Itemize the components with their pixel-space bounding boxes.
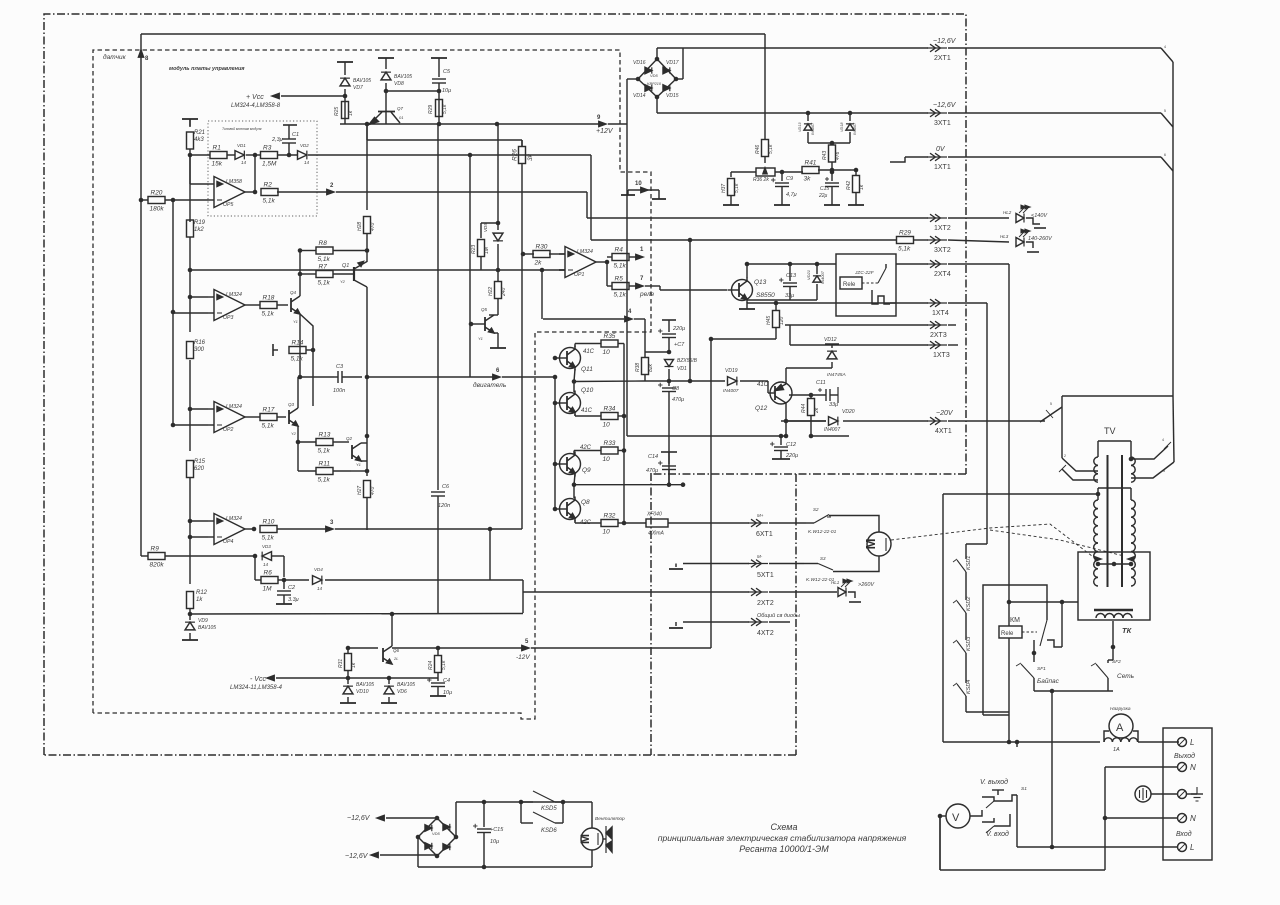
svg-text:IN4007: IN4007: [811, 122, 815, 135]
svg-text:820k: 820k: [150, 562, 165, 569]
svg-text:Y1: Y1: [356, 462, 361, 467]
svg-text:+C15: +C15: [490, 827, 504, 833]
svg-text:5,1k: 5,1k: [734, 183, 740, 193]
svg-text:LM324-11,LM358-4: LM324-11,LM358-4: [230, 685, 283, 691]
svg-text:TV: TV: [1104, 426, 1116, 436]
svg-text:10μ: 10μ: [443, 690, 452, 696]
svg-text:R46: R46: [755, 145, 761, 154]
svg-text:Q9: Q9: [582, 467, 591, 474]
svg-text:C8: C8: [672, 386, 680, 392]
svg-text:Нагрузка: Нагрузка: [1110, 706, 1131, 712]
svg-text:S1: S1: [1021, 786, 1027, 792]
svg-text:S2: S2: [813, 507, 819, 512]
svg-text:~12,6V: ~12,6V: [933, 102, 957, 109]
svg-text:VD21: VD21: [806, 270, 811, 280]
svg-text:R29: R29: [899, 230, 911, 237]
svg-text:5,1k: 5,1k: [318, 448, 331, 455]
svg-text:220μ: 220μ: [785, 453, 798, 459]
svg-text:BAV105: BAV105: [356, 682, 374, 688]
svg-text:1k: 1k: [859, 184, 865, 190]
svg-text:5,1k: 5,1k: [614, 292, 627, 299]
svg-text:C11: C11: [816, 380, 826, 386]
svg-text:01: 01: [399, 115, 403, 120]
svg-text:BAV105: BAV105: [394, 74, 412, 80]
svg-text:R8: R8: [319, 240, 328, 247]
svg-text:V. вход: V. вход: [986, 830, 1009, 838]
svg-text:VD9: VD9: [198, 618, 208, 624]
svg-text:~12,6V: ~12,6V: [347, 815, 371, 822]
svg-text:M: M: [578, 834, 592, 844]
svg-text:LM324-4,LM358-8: LM324-4,LM358-8: [231, 103, 281, 109]
svg-text:1M: 1M: [484, 246, 490, 254]
svg-text:LM324: LM324: [577, 249, 593, 255]
svg-text:L: L: [1190, 843, 1194, 852]
svg-text:6XT1: 6XT1: [756, 531, 773, 538]
svg-text:Q7: Q7: [397, 106, 404, 111]
svg-text:5,1k: 5,1k: [442, 104, 448, 114]
svg-text:VD12: VD12: [824, 337, 837, 343]
svg-text:1XT3: 1XT3: [933, 352, 950, 359]
svg-text:3.3μ: 3.3μ: [288, 597, 299, 603]
svg-text:R2: R2: [264, 182, 273, 189]
svg-text:H37: H37: [721, 184, 727, 193]
svg-text:N: N: [1190, 814, 1196, 823]
svg-text:470: 470: [370, 486, 376, 495]
svg-text:2XT2: 2XT2: [757, 600, 774, 607]
svg-text:1XT4: 1XT4: [932, 310, 949, 317]
svg-text:2k: 2k: [534, 260, 543, 267]
svg-text:5,1k: 5,1k: [263, 198, 276, 205]
svg-text:120n: 120n: [438, 503, 450, 509]
svg-text:VD13: VD13: [798, 122, 802, 132]
svg-text:5: 5: [1164, 109, 1166, 113]
svg-text:R12: R12: [196, 590, 208, 596]
svg-text:R42: R42: [846, 181, 852, 190]
svg-text:LM324: LM324: [226, 404, 242, 410]
svg-text:400mA: 400mA: [648, 531, 665, 537]
svg-text:10: 10: [603, 422, 611, 429]
svg-text:R19: R19: [194, 220, 206, 226]
svg-text:Q3: Q3: [288, 402, 295, 407]
svg-text:HL1: HL1: [831, 580, 840, 585]
svg-text:HL3: HL3: [1000, 234, 1009, 239]
svg-text:SF1: SF1: [1037, 666, 1046, 672]
svg-text:3: 3: [1163, 469, 1165, 473]
svg-text:Rele: Rele: [1001, 631, 1014, 637]
svg-text:HL2: HL2: [1003, 210, 1012, 215]
svg-text:R34: R34: [604, 406, 616, 413]
svg-text:5,1k: 5,1k: [262, 423, 275, 430]
svg-text:5,1k: 5,1k: [768, 144, 774, 154]
svg-text:OP5: OP5: [223, 202, 233, 208]
svg-text:Rele: Rele: [843, 282, 856, 288]
svg-text:KSD6: KSD6: [541, 828, 557, 834]
svg-text:2XT4: 2XT4: [934, 271, 951, 278]
svg-text:R38: R38: [635, 363, 641, 372]
svg-text:VD10: VD10: [356, 689, 369, 695]
svg-text:240: 240: [501, 287, 507, 297]
svg-text:VD6: VD6: [397, 689, 407, 695]
svg-text:R44: R44: [801, 404, 807, 413]
svg-text:41C: 41C: [757, 382, 769, 388]
svg-text:300: 300: [194, 347, 205, 353]
svg-text:R18: R18: [263, 295, 275, 302]
svg-text:OP2: OP2: [223, 427, 233, 433]
svg-text:10: 10: [603, 349, 611, 356]
svg-text:BZX55/B: BZX55/B: [677, 358, 698, 364]
svg-text:OP4: OP4: [223, 539, 233, 545]
svg-text:10μ: 10μ: [442, 88, 451, 94]
svg-text:Q12: Q12: [755, 405, 768, 412]
svg-text:двигатель: двигатель: [473, 381, 507, 389]
svg-text:Q13: Q13: [754, 279, 767, 286]
svg-text:Q4: Q4: [290, 290, 297, 295]
svg-text:H45: H45: [766, 316, 772, 325]
svg-text:- Vcc: - Vcc: [250, 676, 266, 683]
svg-text:>260V: >260V: [858, 582, 875, 588]
svg-text:3XT1: 3XT1: [934, 120, 951, 127]
svg-text:220μ: 220μ: [672, 326, 685, 332]
svg-text:14: 14: [304, 160, 310, 165]
svg-text:R23: R23: [471, 245, 477, 254]
svg-text:LM324: LM324: [226, 292, 242, 298]
svg-text:2: 2: [1064, 454, 1066, 458]
svg-text:Y2: Y2: [291, 431, 297, 436]
svg-text:5,1k: 5,1k: [614, 263, 627, 270]
svg-text:C1: C1: [292, 132, 299, 138]
svg-text:R10: R10: [263, 519, 275, 526]
svg-text:BAV105: BAV105: [198, 625, 216, 631]
svg-text:H22: H22: [488, 287, 494, 296]
svg-text:10: 10: [603, 456, 611, 463]
svg-text:Выход: Выход: [1174, 752, 1195, 760]
svg-text:R36 2k: R36 2k: [753, 177, 769, 183]
svg-text:476: 476: [835, 151, 841, 160]
svg-text:M+: M+: [757, 513, 764, 518]
svg-text:C4: C4: [443, 678, 450, 684]
svg-text:1,5M: 1,5M: [262, 161, 277, 168]
svg-text:15k: 15k: [212, 161, 223, 168]
svg-text:~12,6V: ~12,6V: [345, 853, 369, 860]
svg-text:Вентилятор: Вентилятор: [595, 816, 625, 822]
svg-text:R5: R5: [615, 276, 624, 283]
svg-text:Q5: Q5: [481, 307, 488, 312]
svg-text:ТК: ТК: [1122, 626, 1133, 635]
svg-text:R33: R33: [604, 440, 616, 447]
svg-text:5,1k: 5,1k: [441, 660, 447, 670]
svg-text:2XT1: 2XT1: [934, 55, 951, 62]
svg-text:VD16: VD16: [633, 60, 646, 66]
svg-text:Q2: Q2: [346, 436, 353, 441]
svg-text:5,1k: 5,1k: [291, 356, 304, 363]
svg-text:2k: 2k: [814, 407, 820, 414]
svg-text:R32: R32: [604, 513, 616, 520]
svg-text:R16: R16: [194, 340, 206, 346]
svg-text:VD3: VD3: [262, 544, 271, 549]
svg-text:Y1: Y1: [293, 319, 298, 324]
svg-text:Q11: Q11: [581, 366, 593, 373]
svg-text:1A: 1A: [1113, 747, 1120, 753]
svg-text:R43: R43: [822, 151, 828, 160]
svg-text:140-260V: 140-260V: [1028, 236, 1053, 242]
svg-text:~20V: ~20V: [936, 410, 954, 417]
svg-text:R14: R14: [292, 340, 304, 347]
svg-text:Байпас: Байпас: [1037, 677, 1060, 685]
svg-text:470μ: 470μ: [672, 397, 684, 403]
svg-text:10μ: 10μ: [490, 839, 499, 845]
svg-text:M: M: [863, 539, 878, 550]
svg-text:IN4007: IN4007: [853, 122, 857, 135]
svg-text:<140V: <140V: [1031, 213, 1048, 219]
svg-text:KSD4: KSD4: [966, 680, 972, 694]
svg-text:+C7: +C7: [674, 342, 685, 348]
svg-text:5,1k: 5,1k: [262, 311, 275, 318]
svg-text:датчик: датчик: [103, 53, 127, 61]
svg-text:C14: C14: [648, 454, 658, 460]
svg-text:33μ: 33μ: [785, 293, 794, 299]
svg-text:R7: R7: [319, 264, 328, 271]
svg-text:Сеть: Сеть: [1117, 673, 1135, 680]
svg-text:Q8: Q8: [581, 499, 590, 506]
svg-text:R9: R9: [151, 546, 160, 553]
svg-text:VD1: VD1: [677, 366, 687, 372]
svg-text:R29: R29: [428, 105, 434, 114]
svg-text:82k: 82k: [648, 363, 654, 372]
svg-text:KSD5: KSD5: [541, 806, 557, 812]
svg-text:4XT2: 4XT2: [757, 630, 774, 637]
svg-text:VD8: VD8: [394, 81, 404, 87]
svg-text:VD2: VD2: [300, 143, 309, 148]
svg-text:+12V: +12V: [596, 128, 614, 135]
svg-text:VD5: VD5: [432, 831, 441, 836]
svg-text:V. выход: V. выход: [980, 778, 1008, 786]
svg-text:Q10: Q10: [581, 387, 594, 394]
svg-text:180k: 180k: [150, 206, 165, 213]
svg-text:Вход: Вход: [1176, 830, 1192, 838]
svg-text:R35: R35: [604, 333, 616, 340]
svg-text:1k2: 1k2: [194, 227, 204, 233]
svg-text:OP3: OP3: [223, 315, 233, 321]
svg-text:N: N: [1190, 763, 1196, 772]
svg-text:41C: 41C: [581, 408, 593, 414]
svg-text:4: 4: [1164, 45, 1166, 49]
svg-text:Q6: Q6: [393, 648, 400, 653]
svg-text:IN4745A: IN4745A: [827, 372, 846, 378]
svg-text:100n: 100n: [333, 388, 345, 394]
svg-text:620: 620: [194, 466, 205, 472]
svg-text:2L: 2L: [393, 656, 398, 661]
svg-text:LM324: LM324: [226, 516, 242, 522]
svg-text:R20: R20: [151, 190, 163, 197]
svg-text:VD7: VD7: [353, 85, 363, 91]
svg-text:2XT3: 2XT3: [930, 332, 947, 339]
svg-text:5,1k: 5,1k: [898, 246, 911, 253]
svg-text:VD5: VD5: [650, 73, 659, 78]
svg-text:5,1k: 5,1k: [318, 280, 331, 287]
svg-text:LM358: LM358: [226, 179, 242, 185]
svg-text:10: 10: [603, 529, 611, 536]
svg-text:C13: C13: [786, 273, 797, 279]
svg-text:R30: R30: [536, 244, 548, 251]
svg-text:1k: 1k: [196, 597, 203, 603]
svg-text:41C: 41C: [583, 349, 595, 355]
svg-text:~12,6V: ~12,6V: [933, 38, 957, 45]
svg-text:КМ: КМ: [1010, 617, 1020, 624]
svg-text:R17: R17: [263, 407, 275, 414]
svg-text:1k: 1k: [351, 662, 357, 668]
svg-text:R21: R21: [194, 130, 205, 136]
svg-text:-12V: -12V: [516, 654, 530, 661]
svg-text:VD15: VD15: [666, 93, 679, 99]
svg-text:BAV105: BAV105: [397, 682, 415, 688]
svg-text:VD1: VD1: [237, 143, 246, 148]
svg-text:V: V: [952, 812, 960, 824]
svg-text:XF040: XF040: [646, 512, 662, 518]
svg-text:C3: C3: [336, 364, 344, 370]
svg-text:3k: 3k: [804, 176, 812, 183]
svg-text:470: 470: [370, 222, 376, 231]
svg-text:Ресанта 10000/1-ЭМ: Ресанта 10000/1-ЭМ: [739, 844, 829, 854]
svg-text:+ Vcc: + Vcc: [246, 94, 264, 101]
svg-text:R41: R41: [805, 160, 817, 167]
svg-text:R6: R6: [264, 570, 273, 577]
svg-text:R31: R31: [338, 659, 344, 668]
svg-text:1XT2: 1XT2: [934, 225, 951, 232]
svg-text:14: 14: [317, 586, 323, 591]
svg-text:S3: S3: [820, 556, 826, 561]
svg-text:C9: C9: [786, 176, 793, 182]
svg-text:IN4007: IN4007: [723, 388, 739, 394]
svg-text:VD17: VD17: [666, 60, 679, 66]
svg-text:Q1: Q1: [342, 263, 349, 269]
svg-text:SF2: SF2: [1112, 659, 1121, 665]
svg-text:10: 10: [635, 181, 642, 187]
svg-text:VD20: VD20: [842, 409, 855, 415]
svg-text:5XT1: 5XT1: [757, 572, 774, 579]
svg-text:R1: R1: [213, 145, 222, 152]
svg-text:H27: H27: [357, 486, 363, 495]
svg-text:6: 6: [1164, 153, 1166, 157]
svg-text:VD5: VD5: [483, 223, 488, 232]
svg-text:IN4007: IN4007: [820, 270, 825, 284]
svg-text:L: L: [1190, 738, 1194, 747]
svg-text:1XT1: 1XT1: [934, 164, 951, 171]
svg-text:4k3: 4k3: [194, 137, 204, 143]
svg-text:VD19: VD19: [725, 368, 738, 374]
svg-text:принципиальная электрическая с: принципиальная электрическая стабилизато…: [658, 833, 907, 843]
svg-text:Y1: Y1: [478, 336, 483, 341]
svg-text:5,1k: 5,1k: [262, 535, 275, 542]
svg-text:3XT2: 3XT2: [934, 247, 951, 254]
svg-text:VD18: VD18: [840, 122, 844, 132]
svg-text:KSD1: KSD1: [966, 556, 972, 570]
svg-text:реле: реле: [639, 291, 655, 298]
svg-text:R24: R24: [428, 661, 434, 670]
svg-text:BAV105: BAV105: [353, 78, 371, 84]
svg-text:R13: R13: [319, 432, 331, 439]
svg-text:R25: R25: [334, 107, 340, 116]
svg-text:C2: C2: [288, 585, 295, 591]
svg-text:M-: M-: [757, 554, 763, 559]
svg-text:5,1k: 5,1k: [318, 256, 331, 263]
svg-text:модуль платы управления: модуль платы управления: [169, 66, 245, 72]
svg-text:C6: C6: [442, 484, 450, 490]
svg-text:14: 14: [263, 562, 269, 567]
svg-text:R11: R11: [319, 461, 331, 468]
svg-text:IN4007: IN4007: [824, 427, 840, 433]
svg-text:OP1: OP1: [574, 272, 584, 278]
svg-text:470μ: 470μ: [646, 468, 658, 474]
svg-text:4,7μ: 4,7μ: [786, 192, 797, 198]
svg-text:H28: H28: [357, 222, 363, 231]
svg-text:JZC-22F: JZC-22F: [854, 270, 875, 276]
svg-text:0V: 0V: [936, 146, 946, 153]
svg-text:5,1k: 5,1k: [318, 477, 331, 484]
svg-text:C12: C12: [786, 442, 796, 448]
svg-text:Типовой монтаж модуля: Типовой монтаж модуля: [222, 127, 262, 131]
svg-text:KBP210: KBP210: [647, 82, 662, 86]
svg-text:Общий св диоды: Общий св диоды: [757, 612, 800, 619]
svg-text:1M: 1M: [263, 586, 273, 593]
svg-text:C15: C15: [820, 186, 829, 192]
svg-text:KSD3: KSD3: [966, 636, 972, 651]
svg-text:VD14: VD14: [633, 93, 646, 99]
svg-text:S8550: S8550: [756, 292, 775, 299]
svg-text:VD4: VD4: [314, 567, 323, 572]
svg-text:Схема: Схема: [771, 822, 798, 832]
svg-text:5: 5: [1050, 402, 1052, 406]
svg-text:R4: R4: [615, 247, 624, 254]
svg-text:Y2: Y2: [340, 279, 346, 284]
svg-text:14: 14: [241, 160, 247, 165]
svg-text:33μ: 33μ: [829, 402, 838, 408]
svg-text:120: 120: [779, 316, 785, 325]
svg-text:2,3μ: 2,3μ: [271, 137, 283, 143]
svg-text:4XT1: 4XT1: [935, 428, 952, 435]
svg-text:K.W12-22-01: K.W12-22-01: [808, 529, 837, 535]
svg-text:R15: R15: [194, 459, 206, 465]
svg-text:C5: C5: [443, 69, 451, 75]
svg-text:1k: 1k: [348, 110, 354, 116]
svg-text:4: 4: [1162, 438, 1164, 442]
svg-text:22μ: 22μ: [818, 193, 828, 199]
svg-text:A: A: [1116, 722, 1124, 734]
svg-text:KSD2: KSD2: [966, 597, 972, 611]
svg-text:R3: R3: [263, 145, 272, 152]
